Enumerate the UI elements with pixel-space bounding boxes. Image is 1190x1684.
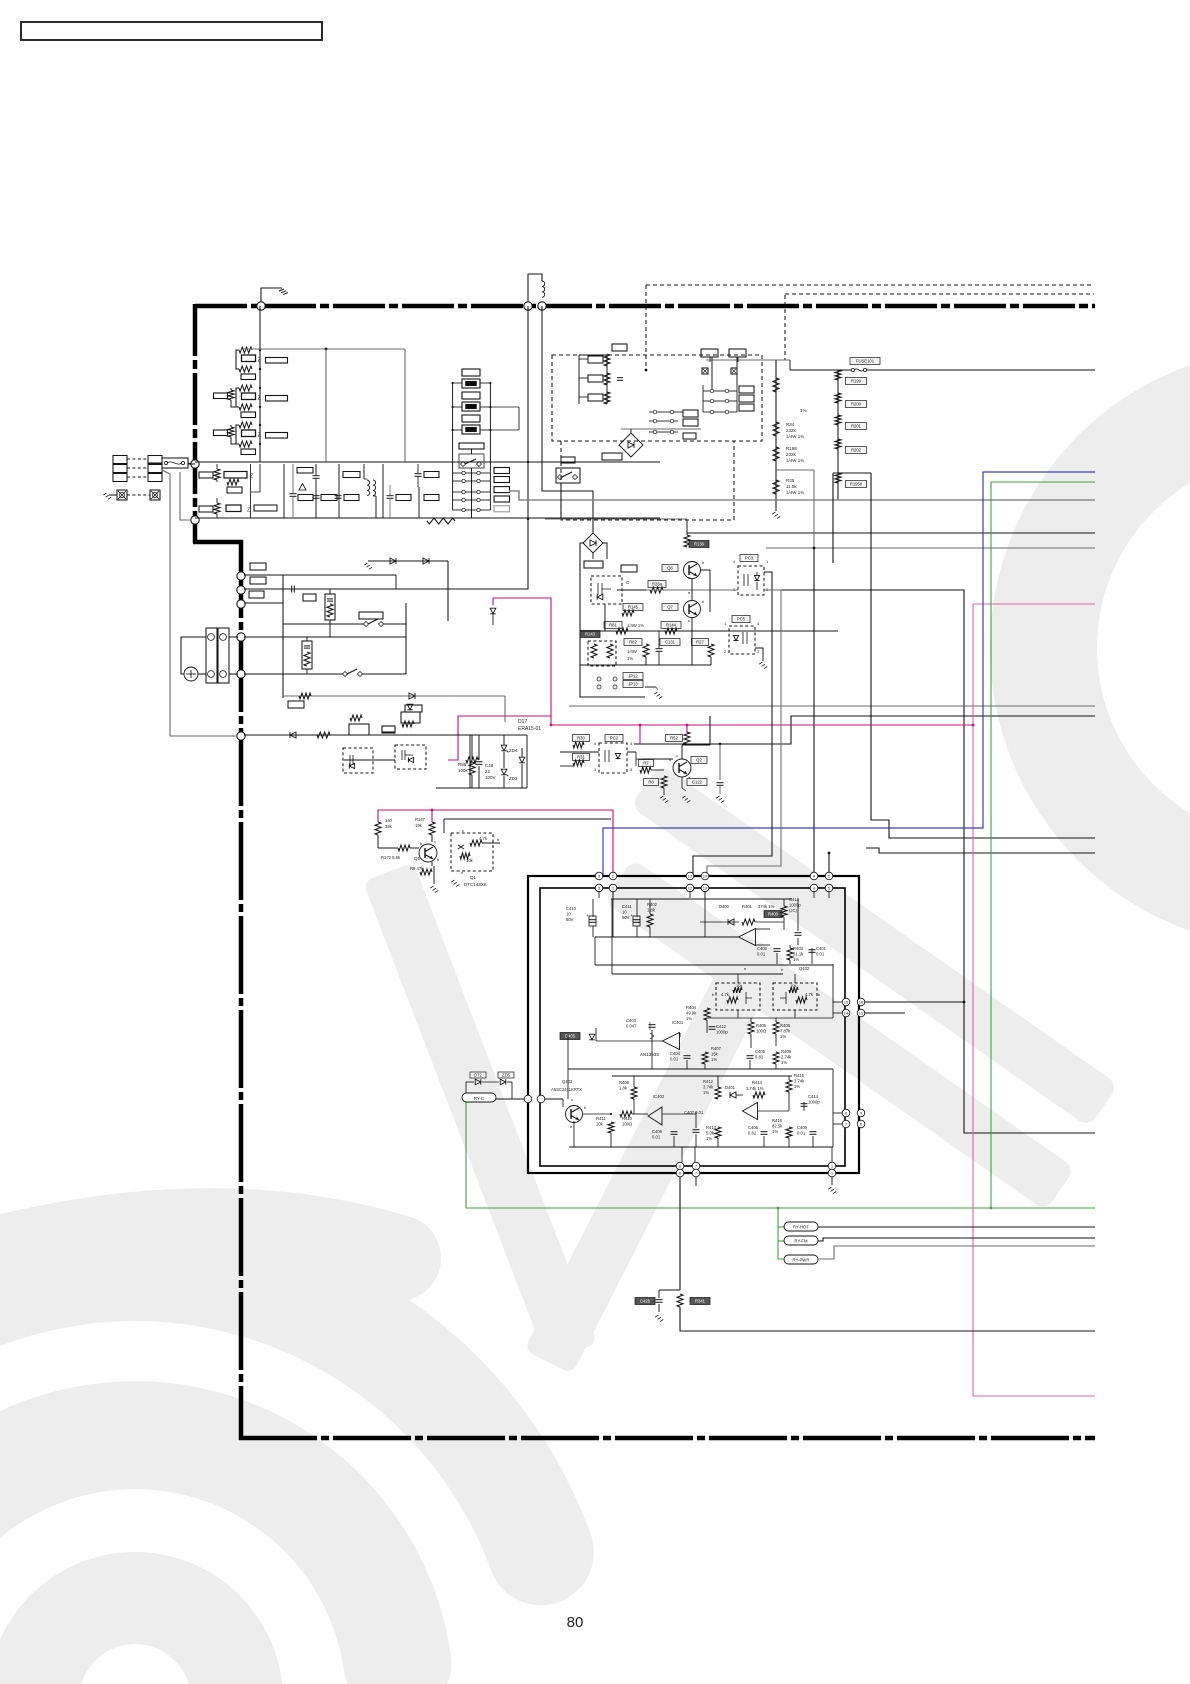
box hot1: [584, 561, 603, 568]
svg-text:1%: 1%: [703, 1090, 709, 1095]
dashed boundary box: [552, 355, 762, 441]
svg-text:15k: 15k: [711, 1051, 719, 1056]
svg-text:Z: Z: [247, 508, 250, 514]
box label L5: [561, 457, 575, 463]
ground Q1: [451, 880, 454, 882]
net magenta branch PC2: [639, 725, 641, 744]
diode D18: [519, 757, 525, 763]
fuse F1: [162, 458, 188, 468]
thermistor TH1: [325, 594, 335, 620]
resistor R7: [639, 760, 654, 767]
IC pin 12 outer: [686, 872, 694, 880]
svg-text:+: +: [630, 913, 633, 918]
wire Q2 right rail: [709, 716, 711, 745]
svg-text:R1950: R1950: [850, 482, 863, 487]
vertical 505 drop: [504, 696, 506, 722]
filter block wires: [216, 464, 218, 469]
RY-C pill: [462, 1093, 496, 1102]
resistor R52: [666, 735, 683, 742]
IC right pins y1113: [842, 1109, 850, 1117]
svg-text:51.1k: 51.1k: [793, 951, 804, 956]
IC pin 4 outer: [810, 872, 818, 880]
svg-text:1000p: 1000p: [716, 1029, 728, 1034]
svg-text:0.01: 0.01: [797, 1130, 806, 1135]
svg-text:100Ω: 100Ω: [756, 1028, 766, 1033]
svg-text:R341: R341: [695, 1299, 706, 1304]
svg-text:10: 10: [703, 886, 708, 891]
contact grid mid: [653, 410, 657, 414]
contact grid right labels: [739, 386, 754, 393]
wire Q5 down: [433, 866, 435, 884]
svg-text:R400: R400: [768, 912, 779, 917]
svg-text:Q402: Q402: [799, 966, 810, 971]
wire y590 to corner: [781, 590, 1095, 1133]
transistor Q7: [684, 601, 701, 618]
svg-text:RY-HOT: RY-HOT: [793, 1225, 809, 1230]
frame border left upper: [193, 304, 198, 543]
svg-text:R404: R404: [686, 1005, 697, 1010]
wire y637: [244, 636, 406, 638]
svg-text:JP13: JP13: [628, 682, 638, 687]
relay contact ladder: [462, 471, 465, 474]
IC right pins y1013: [842, 1009, 850, 1017]
svg-text:IC401: IC401: [672, 1020, 684, 1025]
svg-text:R401: R401: [742, 904, 753, 909]
wire y706: [569, 705, 1095, 707]
cap X1: [290, 493, 297, 495]
IC pin 12 inner: [686, 884, 694, 892]
svg-text:1%: 1%: [780, 1034, 786, 1039]
ground at AC plug: [109, 494, 117, 496]
IC right pins y1002: [842, 998, 850, 1006]
interlock connector J1: [206, 628, 217, 683]
box C5: [344, 495, 359, 501]
svg-text:49.9k: 49.9k: [686, 1010, 697, 1015]
IC pin 10 outer: [701, 872, 709, 880]
node left lower border y590: [237, 586, 245, 594]
big zigzag resistor on lower bus: [427, 518, 455, 524]
wire RY-C: [496, 1098, 524, 1100]
switch S3: [363, 621, 368, 626]
svg-text:82.5k: 82.5k: [772, 1123, 783, 1128]
vertical 406: [405, 603, 407, 674]
svg-text:C406: C406: [748, 1125, 759, 1130]
resistor R9 47k: [420, 869, 432, 875]
node on top border B: [524, 302, 532, 310]
svg-text:R31: R31: [577, 755, 585, 760]
svg-text:80: 80: [567, 1614, 584, 1631]
contact circles JP: [597, 677, 601, 681]
resistor R147 19k: [429, 822, 435, 835]
svg-text:FUSE101: FUSE101: [856, 359, 875, 364]
resistor R144: [661, 622, 681, 629]
svg-text:C426: C426: [640, 1299, 651, 1304]
svg-text:Q6: Q6: [667, 566, 673, 571]
svg-text:1/4W: 1/4W: [627, 649, 637, 654]
svg-text:+: +: [477, 756, 480, 761]
relay taps: [453, 382, 462, 384]
svg-text:RY-FM: RY-FM: [794, 1239, 808, 1244]
frame border jog: [193, 540, 243, 545]
wire AC neutral down: [162, 470, 237, 736]
resistor R202: [835, 439, 841, 449]
wire y533: [687, 532, 1095, 534]
transistor Q1 dashed box: [451, 833, 493, 871]
boxed label R31: [573, 754, 590, 761]
IC bottom pin right: [828, 1162, 836, 1170]
svg-text:0.82: 0.82: [748, 1130, 757, 1135]
wire relay to bus: [471, 449, 473, 454]
net magenta D17 drive: [493, 598, 973, 725]
svg-text:R143: R143: [585, 632, 596, 637]
resistor R1950: [835, 473, 841, 483]
svg-text:R8: R8: [648, 780, 654, 785]
net magenta branch left: [448, 716, 551, 760]
svg-text:R407: R407: [711, 1046, 722, 1051]
boxed label D405: [560, 1033, 580, 1040]
dashed top line 2: [785, 293, 1094, 295]
svg-text:C408: C408: [652, 1129, 663, 1134]
svg-text:PC2: PC2: [610, 736, 619, 741]
net green RY-C: [465, 1100, 467, 1208]
svg-text:2.74k: 2.74k: [781, 1054, 792, 1059]
hot cluster wires 2: [617, 589, 646, 591]
capacitor C131: [660, 639, 680, 646]
svg-text:c: c: [434, 839, 436, 844]
svg-text:C411: C411: [622, 904, 632, 909]
resistor R85: [466, 757, 478, 763]
svg-text:c: c: [462, 828, 464, 833]
frame border left lower: [239, 540, 244, 1440]
IC right pin stubs: [833, 1001, 842, 1003]
triangle mark: [299, 484, 306, 491]
svg-text:ZD3: ZD3: [509, 776, 518, 781]
resistor R33: [773, 378, 779, 392]
transistor Q5: [419, 844, 437, 862]
svg-text:R405: R405: [756, 1023, 767, 1028]
svg-text:R81: R81: [609, 623, 617, 628]
diode on y696: [409, 693, 415, 699]
svg-text:22: 22: [485, 769, 491, 774]
svg-text:232k: 232k: [786, 428, 797, 433]
svg-text:12: 12: [688, 874, 693, 879]
svg-text:15: 15: [844, 1000, 849, 1005]
capacitor C122: [687, 779, 707, 786]
svg-text:1%: 1%: [781, 1060, 787, 1065]
svg-text:R145: R145: [628, 605, 639, 610]
svg-text:ZD4: ZD4: [509, 748, 518, 753]
svg-text:R86: R86: [458, 762, 467, 767]
wires PC2 row: [560, 751, 599, 753]
box on y600: [303, 594, 316, 601]
wire fuse to frame node: [188, 463, 191, 464]
wire x871 to y839: [871, 473, 1095, 838]
svg-text:R410: R410: [622, 1116, 633, 1121]
svg-text:3.74k: 3.74k: [794, 1078, 805, 1083]
opto PC3: [740, 555, 758, 562]
wire black y819: [444, 818, 611, 820]
svg-text:C409: C409: [797, 1125, 808, 1130]
resistor R172: [398, 845, 410, 851]
vertical 448: [447, 561, 449, 621]
vertical 396: [395, 575, 397, 589]
cap inline y589: [291, 586, 293, 593]
svg-text:JP12: JP12: [628, 674, 638, 679]
svg-text:1000p: 1000p: [808, 1099, 820, 1104]
svg-text:R412: R412: [703, 1079, 714, 1084]
svg-text:10k: 10k: [596, 1121, 604, 1126]
node on top border C: [538, 302, 546, 310]
svg-text:R9 47k: R9 47k: [410, 866, 424, 871]
net green relay drops: [778, 1208, 784, 1259]
wire y631: [580, 630, 838, 632]
net magenta lower rail: [378, 810, 613, 876]
switch S4: [342, 671, 347, 676]
cap X4: [387, 495, 394, 497]
wire grid connections: [711, 357, 713, 389]
svg-text:R199: R199: [851, 379, 862, 384]
svg-text:G: G: [626, 580, 630, 585]
svg-text:R200: R200: [851, 402, 862, 407]
svg-text:R202: R202: [851, 448, 862, 453]
switch S2 box: [556, 468, 580, 483]
wire y744 step y716: [634, 716, 1095, 744]
transistor Q6: [684, 562, 701, 579]
Q1 internals: [458, 845, 464, 849]
resistor R136: [684, 535, 690, 547]
right rail 781 to pin10: [707, 590, 781, 876]
svg-text:C412: C412: [716, 1024, 727, 1029]
wire AC to lower bus: [180, 472, 191, 520]
dashed top line 1: [646, 284, 1094, 286]
resistor R145: [623, 604, 643, 611]
svg-text:C122: C122: [692, 780, 703, 785]
svg-text:R415: R415: [794, 1073, 805, 1078]
svg-text:R34: R34: [786, 422, 795, 427]
IC pin 10 inner: [701, 884, 709, 892]
svg-text:R414: R414: [752, 1080, 763, 1085]
box label wide: [359, 612, 383, 619]
net magenta branch R52: [686, 725, 688, 733]
box label L6: [602, 453, 622, 460]
IC pin 5 outer: [825, 872, 833, 880]
dashed pair box right: [773, 983, 817, 1010]
relay switch contact: [459, 454, 484, 468]
svg-text:D400: D400: [719, 904, 730, 909]
resistor ladder group 2: [239, 385, 252, 391]
svg-text:Q403: Q403: [562, 1079, 573, 1084]
wire R34 rail: [775, 360, 777, 508]
bus AC top: [195, 461, 660, 463]
IC bottom pins left: [676, 1162, 684, 1170]
svg-text:12: 12: [688, 886, 693, 891]
svg-text:7.87k: 7.87k: [780, 1028, 791, 1033]
svg-text:R52: R52: [670, 736, 678, 741]
svg-text:R27: R27: [696, 640, 704, 645]
ground label column: [837, 473, 839, 500]
svg-text:A5SC2411KRTX: A5SC2411KRTX: [551, 1087, 582, 1092]
op-amp IC403: [743, 1103, 758, 1120]
ground R35: [772, 512, 775, 514]
net magenta drop R147: [431, 810, 433, 822]
wire pin5 drop: [828, 853, 830, 876]
transistor Q2: [673, 759, 691, 777]
box C6: [396, 495, 411, 501]
IC pin 2 outer: [609, 872, 617, 880]
svg-text:1/4W 1%: 1/4W 1%: [786, 434, 804, 439]
opto PC2: [605, 735, 623, 742]
wire y853: [866, 848, 1095, 853]
svg-text:1%: 1%: [686, 1016, 692, 1021]
snubber resistor group: [588, 356, 603, 363]
net green bus: [466, 1207, 1095, 1209]
svg-text:100Ω: 100Ω: [622, 1121, 632, 1126]
wire snubber top: [579, 354, 607, 356]
wire hot rail y500: [509, 491, 1095, 500]
svg-text:R411: R411: [596, 1116, 606, 1121]
svg-text:R402: R402: [647, 902, 658, 907]
box label D17a: [382, 726, 395, 733]
wire vertical x339: [338, 464, 340, 518]
svg-text:C46: C46: [485, 763, 494, 768]
relay K1 stack: [462, 369, 480, 376]
watermark swirl: [33, 1598, 237, 1684]
resistor R86: [469, 762, 475, 775]
wire gray v2: [404, 349, 406, 462]
op-amp IC400a: [739, 929, 756, 946]
node left border 2: [191, 516, 199, 524]
svg-text:D405: D405: [565, 1034, 576, 1039]
svg-text:1%: 1%: [706, 1136, 712, 1141]
svg-text:C403: C403: [626, 1018, 637, 1023]
svg-text:3.74k: 3.74k: [703, 1084, 714, 1089]
svg-text:D17: D17: [518, 719, 527, 725]
svg-text:4.7k: 4.7k: [479, 836, 488, 841]
wire label column rail: [837, 370, 839, 500]
svg-text:Q2: Q2: [696, 758, 702, 763]
svg-text:Q7: Q7: [667, 605, 673, 610]
svg-text:R147: R147: [415, 817, 426, 822]
resistor R198: [773, 447, 779, 461]
box C2: [298, 495, 313, 501]
box label D17b: [405, 705, 422, 712]
MOSFET Q8 dashed: [343, 748, 373, 773]
node left border 1: [191, 460, 199, 468]
svg-text:4.7k: 4.7k: [721, 992, 730, 997]
cap X5: [415, 473, 422, 475]
svg-text:c: c: [676, 753, 678, 758]
svg-text:RY-C: RY-C: [474, 1096, 484, 1101]
degauss coil block: [302, 641, 312, 669]
svg-text:Q1: Q1: [470, 875, 477, 880]
diode at magenta drive: [490, 608, 496, 614]
wire top cluster: [686, 520, 688, 526]
wire IC bottom to C426: [679, 1177, 681, 1290]
snubber network upper: [349, 724, 369, 735]
svg-text:0.01: 0.01: [652, 1134, 661, 1139]
svg-text:1/4W 1%: 1/4W 1%: [786, 490, 804, 495]
relay aux boxes: [494, 468, 510, 474]
svg-text:IC402: IC402: [653, 1094, 665, 1099]
bridge rectifier D11: [583, 533, 603, 553]
box C8: [424, 495, 439, 501]
wire diode row: [466, 1081, 474, 1083]
svg-text:C414: C414: [808, 1094, 819, 1099]
wire hot mid: [646, 589, 738, 591]
svg-text:1%: 1%: [794, 1084, 800, 1089]
svg-text:R403: R403: [793, 946, 804, 951]
AC plug connector: [113, 456, 127, 464]
svg-text:R26a: R26a: [652, 582, 663, 587]
RY-FM pill: [784, 1236, 818, 1245]
right rail 772 to pin12: [693, 572, 772, 876]
opto PC5: [732, 616, 750, 623]
resistor R34: [773, 422, 779, 436]
svg-text:R408: R408: [781, 1049, 792, 1054]
wire y696 gray: [283, 695, 505, 697]
IC pin 3 outer: [595, 872, 603, 880]
cap X2: [313, 475, 320, 477]
svg-text:R172 5.6k: R172 5.6k: [381, 855, 401, 860]
MOSFET QF dashed: [591, 576, 622, 604]
svg-text:(JC): (JC): [789, 908, 798, 913]
fuse FUSE101: [850, 358, 880, 365]
net blue: [603, 472, 1095, 876]
svg-text:10k: 10k: [466, 858, 474, 863]
wire gray v1: [325, 349, 327, 462]
wire x833 x871 link: [833, 472, 871, 474]
vertical 283: [282, 575, 284, 698]
wire Q2 collector: [681, 745, 683, 759]
wire vertical x284: [283, 464, 285, 518]
svg-text:50V: 50V: [622, 915, 630, 920]
wire S2 drop to bus: [560, 483, 562, 518]
svg-text:C402: C402: [757, 946, 768, 951]
svg-text:R201: R201: [851, 424, 862, 429]
svg-text:R35: R35: [786, 478, 795, 483]
node left lower border y604: [237, 600, 245, 608]
wire bridge1: [621, 428, 701, 430]
capacitor C123 hang: [719, 744, 721, 780]
svg-text:C401: C401: [816, 946, 827, 951]
RY-PWR pill: [784, 1255, 818, 1264]
box C4: [343, 472, 360, 478]
zener ZD4: [501, 745, 507, 751]
svg-text:14: 14: [844, 1011, 849, 1016]
frame border top: [195, 304, 1095, 309]
dashed drop 1: [645, 285, 647, 370]
svg-text:232k: 232k: [786, 452, 797, 457]
dashed drop 2: [784, 295, 786, 360]
resistor R27: [692, 639, 709, 646]
svg-text:1.8k: 1.8k: [647, 907, 656, 912]
svg-text:R144: R144: [666, 623, 677, 628]
resistor R200: [835, 393, 841, 403]
resistor R8: [644, 779, 659, 786]
jumper symbols: [702, 368, 708, 374]
contact grid right: [710, 389, 714, 393]
svg-text:R409: R409: [619, 1080, 630, 1085]
wire pin4 long: [813, 548, 815, 876]
boxed label R400: [764, 911, 782, 918]
AC plug shield capacitors: [117, 490, 127, 500]
svg-text:R7: R7: [643, 761, 649, 766]
hot cluster left rail: [580, 543, 645, 697]
wire x814 gray upper: [776, 469, 814, 471]
resistor R35: [773, 480, 779, 494]
net green riser: [991, 482, 1095, 1208]
svg-text:AN1393S: AN1393S: [640, 1052, 659, 1057]
